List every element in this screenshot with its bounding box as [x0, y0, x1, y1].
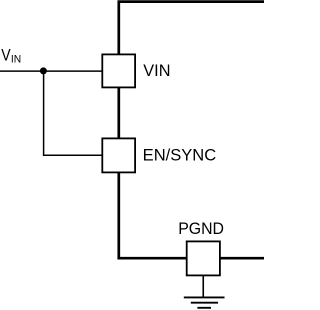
svg-text:V: V: [1, 47, 11, 65]
svg-text:VIN: VIN: [143, 62, 170, 80]
svg-text:IN: IN: [11, 54, 21, 66]
svg-text:PGND: PGND: [178, 219, 224, 238]
svg-text:EN/SYNC: EN/SYNC: [143, 146, 217, 164]
